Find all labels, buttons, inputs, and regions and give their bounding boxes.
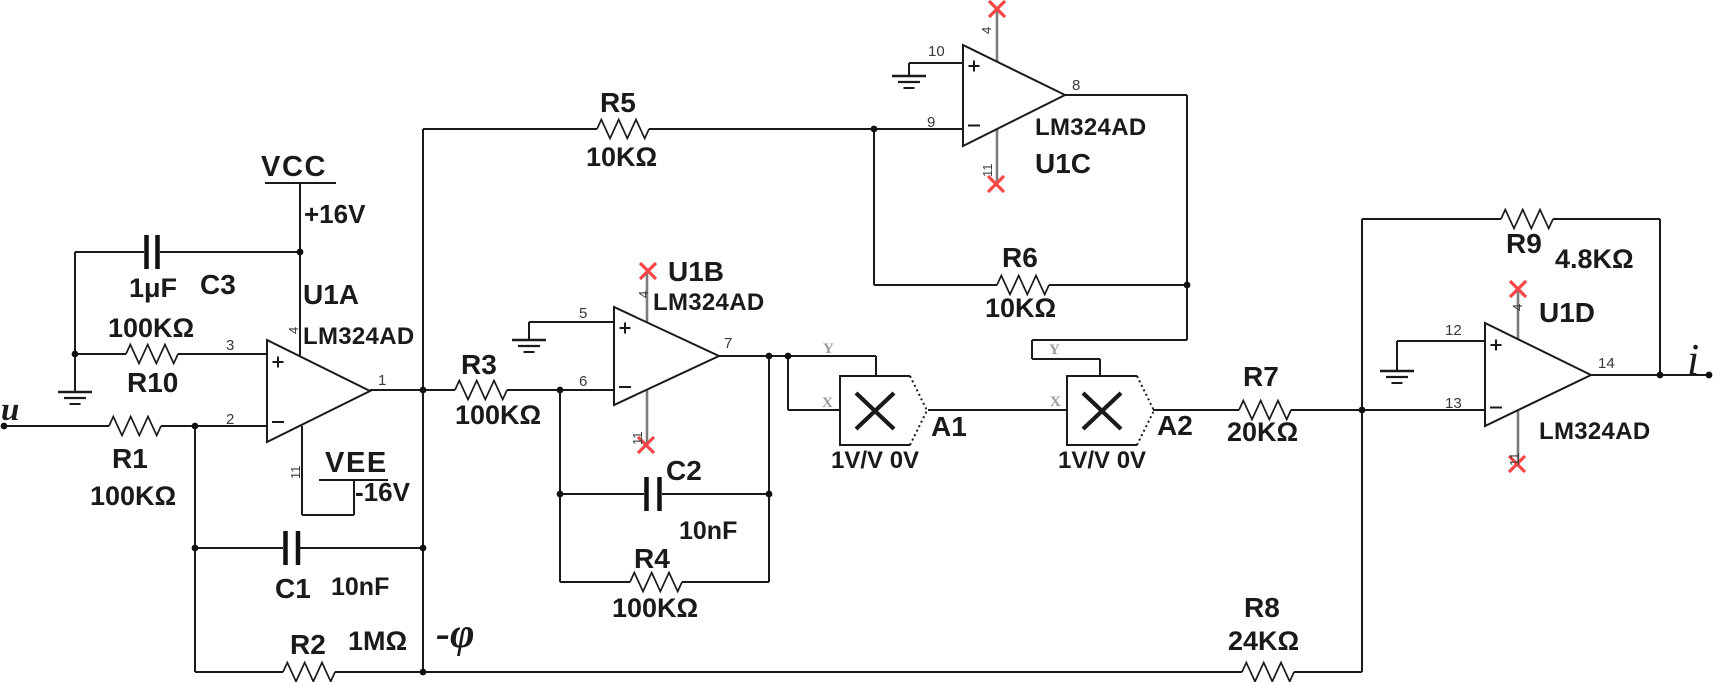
- svg-text:C1: C1: [275, 573, 311, 604]
- svg-text:4: 4: [979, 27, 994, 34]
- svg-text:R4: R4: [634, 543, 670, 574]
- svg-text:1: 1: [378, 372, 386, 389]
- svg-text:14: 14: [1598, 355, 1615, 372]
- svg-text:8: 8: [1072, 77, 1080, 94]
- svg-text:11: 11: [1507, 453, 1522, 467]
- svg-text:U1C: U1C: [1035, 148, 1091, 179]
- svg-text:Y: Y: [823, 341, 834, 357]
- svg-text:10nF: 10nF: [679, 517, 737, 545]
- svg-text:4: 4: [1510, 304, 1525, 311]
- svg-text:A1: A1: [931, 411, 967, 442]
- svg-text:9: 9: [927, 114, 935, 131]
- svg-text:11: 11: [288, 466, 303, 480]
- svg-text:VCC: VCC: [261, 151, 327, 183]
- svg-text:13: 13: [1445, 395, 1462, 412]
- svg-text:R2: R2: [290, 629, 326, 660]
- svg-text:Y: Y: [1049, 342, 1060, 358]
- svg-text:R8: R8: [1244, 592, 1280, 623]
- svg-text:LM324AD: LM324AD: [653, 289, 764, 316]
- svg-text:R5: R5: [600, 87, 636, 118]
- svg-text:10KΩ: 10KΩ: [985, 293, 1056, 323]
- svg-text:u: u: [1, 392, 19, 428]
- svg-text:1V/V 0V: 1V/V 0V: [831, 447, 919, 474]
- svg-text:R7: R7: [1243, 361, 1279, 392]
- svg-text:C2: C2: [666, 455, 702, 486]
- svg-text:R10: R10: [127, 367, 178, 398]
- svg-text:7: 7: [724, 335, 732, 352]
- svg-text:4: 4: [636, 291, 651, 298]
- svg-text:100KΩ: 100KΩ: [612, 593, 698, 623]
- svg-text:24KΩ: 24KΩ: [1228, 626, 1299, 656]
- svg-text:R1: R1: [112, 443, 148, 474]
- svg-text:R6: R6: [1002, 242, 1038, 273]
- svg-text:LM324AD: LM324AD: [303, 323, 414, 350]
- svg-text:1MΩ: 1MΩ: [348, 626, 407, 656]
- svg-text:100KΩ: 100KΩ: [90, 481, 176, 511]
- svg-text:C3: C3: [200, 269, 236, 300]
- svg-text:VEE: VEE: [325, 447, 388, 479]
- svg-text:X: X: [1050, 394, 1061, 410]
- svg-text:10: 10: [928, 43, 945, 60]
- svg-text:U1B: U1B: [668, 256, 724, 287]
- svg-text:4.8KΩ: 4.8KΩ: [1555, 244, 1634, 274]
- svg-text:+16V: +16V: [304, 199, 366, 229]
- svg-text:X: X: [822, 395, 833, 411]
- svg-text:12: 12: [1445, 322, 1462, 339]
- svg-text:10nF: 10nF: [331, 573, 389, 601]
- svg-text:2: 2: [226, 411, 234, 428]
- svg-text:R9: R9: [1506, 228, 1542, 259]
- svg-text:-φ: -φ: [436, 611, 475, 657]
- svg-text:R3: R3: [461, 349, 497, 380]
- svg-text:4: 4: [286, 327, 301, 334]
- svg-text:100KΩ: 100KΩ: [455, 400, 541, 430]
- svg-text:6: 6: [579, 373, 587, 390]
- svg-text:11: 11: [980, 164, 995, 178]
- svg-text:U1D: U1D: [1539, 297, 1595, 328]
- svg-text:1V/V 0V: 1V/V 0V: [1058, 447, 1146, 474]
- svg-text:5: 5: [579, 305, 587, 322]
- svg-text:11: 11: [630, 432, 645, 446]
- svg-text:A2: A2: [1157, 410, 1193, 441]
- svg-text:3: 3: [226, 337, 234, 354]
- svg-text:U1A: U1A: [303, 279, 359, 310]
- svg-text:-16V: -16V: [355, 477, 411, 507]
- svg-text:LM324AD: LM324AD: [1035, 114, 1146, 141]
- svg-text:1μF: 1μF: [129, 273, 177, 303]
- svg-text:LM324AD: LM324AD: [1539, 418, 1650, 445]
- svg-text:20KΩ: 20KΩ: [1227, 417, 1298, 447]
- svg-text:i: i: [1687, 335, 1699, 384]
- svg-text:10KΩ: 10KΩ: [586, 142, 657, 172]
- svg-text:100KΩ: 100KΩ: [108, 313, 194, 343]
